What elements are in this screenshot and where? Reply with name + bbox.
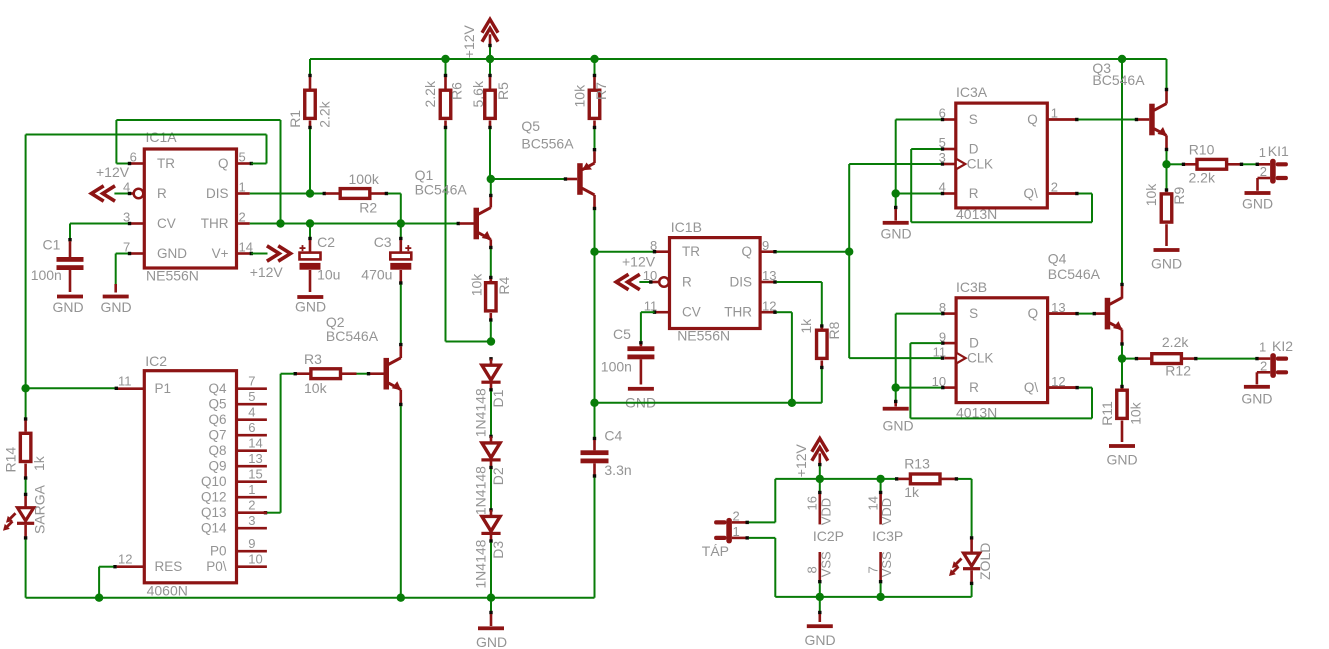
svg-text:VDD: VDD (879, 498, 894, 525)
svg-text:1N4148: 1N4148 (473, 388, 489, 437)
svg-text:470u: 470u (361, 267, 392, 283)
label R1 value 2.2k (317, 100, 333, 127)
wire bottom ground rail (26, 597, 595, 599)
wire bus to R6 (444, 59, 447, 89)
power pins IC2P (818, 479, 821, 597)
capacitor C1 (57, 241, 84, 292)
label IC3P VDD pin 14 (865, 496, 880, 510)
label IC2 name (145, 353, 167, 369)
svg-text:1k: 1k (31, 455, 47, 471)
wire rail to R14 (24, 388, 27, 431)
label IC2P name (813, 528, 844, 544)
junction R4/R6/D1 (487, 337, 495, 345)
label KI2 name (1272, 338, 1293, 354)
svg-text:R7: R7 (593, 82, 609, 100)
label R12 value 2.2k (1162, 334, 1189, 350)
transistor Q5 BC556A (577, 163, 594, 195)
label Q5 value BC556A (521, 135, 574, 151)
svg-text:GND: GND (52, 299, 83, 315)
junction P1 / left rail (21, 384, 29, 392)
svg-text:4060N: 4060N (147, 583, 188, 599)
resistor R11 (1117, 359, 1128, 419)
svg-text:GND: GND (1242, 196, 1273, 212)
svg-text:R8: R8 (826, 321, 842, 339)
label IC3B value 4013N (956, 405, 997, 421)
svg-text:GND: GND (882, 418, 913, 434)
wire Q2 base to R3 (357, 372, 384, 375)
svg-text:2.2k: 2.2k (1162, 334, 1189, 350)
junction Q5 collector / IC1B TR (590, 248, 598, 256)
svg-text:3: 3 (939, 150, 946, 165)
svg-text:GND: GND (1106, 452, 1137, 468)
label Q1 name (415, 167, 434, 183)
label R2 value 100k (349, 171, 380, 187)
label TAP pin 1 (733, 524, 740, 539)
label Q1 value BC546A (415, 182, 468, 198)
junction TR node / C4 / rail (590, 399, 598, 407)
svg-text:R1: R1 (287, 110, 303, 128)
wire DIS(1) net (250, 193, 323, 195)
wire IC3A Q to Q3 base (1047, 118, 1149, 121)
power +12V arrow at IC1B reset (616, 274, 652, 289)
svg-text:R10: R10 (1189, 142, 1215, 158)
power +12V arrow at IC power (812, 438, 828, 479)
wire R2 to THR (388, 194, 401, 224)
svg-text:BC546A: BC546A (326, 328, 379, 344)
resistor R4 (486, 283, 497, 311)
power +12V supply arrow top (482, 19, 498, 59)
svg-text:1: 1 (248, 482, 255, 497)
capacitor C2 (polarized) (300, 240, 321, 292)
wire Q5 collector down (593, 195, 596, 252)
svg-text:Q\: Q\ (1024, 380, 1039, 395)
label +12V at IC1B reset (622, 254, 656, 270)
wire Q(9) to clock bus (773, 250, 849, 253)
svg-text:RES: RES (155, 559, 183, 574)
svg-text:100n: 100n (601, 358, 632, 374)
ground below C1 (52, 295, 83, 315)
svg-text:5.6k: 5.6k (470, 80, 486, 107)
svg-text:CLK: CLK (967, 157, 993, 172)
svg-text:Q5: Q5 (521, 118, 540, 134)
label D2 value 1N4148 (473, 466, 489, 515)
svg-text:1: 1 (239, 180, 246, 195)
svg-text:R: R (969, 380, 979, 395)
svg-text:CLK: CLK (967, 351, 993, 366)
svg-text:P0: P0 (210, 544, 227, 559)
svg-text:2: 2 (1260, 164, 1267, 179)
label R3 value 10k (304, 380, 328, 396)
label R4 name (496, 276, 512, 294)
svg-text:C2: C2 (317, 234, 335, 250)
label +12V at IC1A reset (96, 164, 130, 180)
svg-text:GND: GND (157, 246, 187, 261)
label R8 value 1k (798, 318, 814, 334)
wire +12V top bus (310, 59, 1167, 89)
resistor R6 (440, 90, 451, 118)
wire IC1B TR node down (594, 252, 596, 403)
svg-text:S: S (969, 112, 978, 127)
svg-text:TR: TR (157, 156, 175, 171)
label R6 name (449, 82, 465, 100)
wire R13 to ZOLD (958, 479, 973, 540)
wire clock to IC3B CLK (849, 356, 944, 359)
junction +12V bus / R5+supply (486, 55, 494, 63)
label D2 name (490, 467, 506, 485)
svg-text:KI1: KI1 (1268, 143, 1289, 159)
wire R12 to KI2 (1197, 357, 1270, 360)
svg-text:Q10: Q10 (201, 474, 227, 489)
svg-text:10k: 10k (304, 380, 328, 396)
svg-text:VSS: VSS (879, 551, 894, 577)
svg-text:4013N: 4013N (956, 206, 997, 222)
svg-text:NE556N: NE556N (146, 268, 199, 284)
label TAP pin 2 (733, 508, 740, 523)
svg-text:D: D (969, 142, 979, 157)
wire IC power top rail (775, 477, 898, 480)
svg-text:GND: GND (100, 299, 131, 315)
junction Q4 emitter / R12 / R11 (1118, 354, 1126, 362)
wire R8 to rail (820, 361, 823, 403)
label R9 value 10k (1143, 183, 1159, 207)
svg-text:VSS: VSS (818, 551, 833, 577)
resistor R10 (1167, 159, 1244, 169)
transistor Q3 BC546A (1149, 104, 1167, 136)
flip-flop IC3B 4013N (932, 298, 1077, 403)
svg-text:+12V: +12V (250, 264, 284, 280)
svg-text:GND: GND (476, 634, 507, 649)
label IC2P VSS (818, 551, 833, 577)
power +12V arrow at IC1A reset (91, 186, 131, 201)
svg-text:S: S (969, 306, 978, 321)
wire Q1 collector node to Q5 base (491, 177, 577, 180)
svg-text:1k: 1k (798, 318, 814, 334)
label R13 name (904, 456, 930, 472)
label D3 value 1N4148 (473, 539, 489, 588)
label D3 name (490, 541, 506, 559)
resistor R13 (898, 474, 958, 484)
label IC1A value NE556N (146, 268, 199, 284)
svg-text:100n: 100n (31, 267, 62, 283)
wire R10 to KI1 (1243, 163, 1270, 166)
svg-text:TR: TR (682, 244, 700, 259)
wire IC2 RES to rail (99, 565, 117, 598)
svg-text:TÁP: TÁP (702, 543, 729, 559)
label R8 name (826, 321, 842, 339)
label +12V rotated (793, 443, 809, 477)
label R13 value 1k (904, 484, 920, 500)
junction DIS/R1 (306, 189, 314, 197)
svg-text:R3: R3 (304, 351, 322, 367)
ground below KI1 (1242, 191, 1273, 211)
svg-text:11: 11 (933, 344, 947, 359)
label R5 value 5.6k (470, 80, 486, 107)
svg-text:2: 2 (248, 498, 255, 513)
junction +12V bus / Q4 feed (1118, 55, 1126, 63)
label IC3P VSS pin 7 (865, 566, 880, 573)
diode D2 1N4148 (481, 436, 500, 461)
wire TR(8) net (595, 250, 657, 253)
svg-text:V+: V+ (212, 246, 229, 261)
label Q4 name (1048, 251, 1067, 267)
svg-text:2.2k: 2.2k (1189, 170, 1216, 186)
power pins IC3P (879, 479, 882, 597)
svg-text:1: 1 (1259, 145, 1266, 160)
label IC2P VDD pin 16 (805, 496, 820, 510)
svg-text:9: 9 (248, 536, 255, 551)
svg-text:P0\: P0\ (206, 559, 227, 574)
svg-text:10: 10 (248, 552, 262, 567)
svg-text:GND: GND (295, 299, 326, 315)
svg-text:10k: 10k (572, 84, 588, 108)
junction top rail / supply (816, 475, 824, 483)
transistor Q4 BC546A (1105, 298, 1123, 330)
label C4 value 3.3n (604, 462, 631, 478)
junction THR/C3 (397, 219, 405, 227)
label IC3A name (956, 84, 988, 100)
label R12 name (1165, 363, 1191, 379)
ground below R9 (1151, 224, 1182, 271)
svg-text:+12V: +12V (461, 24, 477, 58)
svg-text:1: 1 (733, 524, 740, 539)
label KI1 pin 2 (1260, 164, 1267, 179)
svg-text:100k: 100k (349, 171, 380, 187)
svg-text:IC2: IC2 (145, 353, 167, 369)
junction +12V bus / R6 (441, 55, 449, 63)
svg-text:Q: Q (1028, 306, 1039, 321)
svg-text:6: 6 (248, 420, 255, 435)
label C5 name (613, 326, 631, 342)
junction THR/TR-loop (276, 219, 284, 227)
label KI2 pin 1 (1259, 340, 1266, 355)
label R2 name (359, 200, 377, 216)
svg-text:D: D (969, 336, 979, 351)
wire IC3B D toggle loop (910, 341, 1092, 418)
op-amp/timer IC1A NE556N (123, 149, 253, 268)
label R3 name (304, 351, 322, 367)
diode D3 1N4148 (481, 510, 500, 535)
wire R3 to IC2 Q13 (264, 374, 294, 515)
LED ZOLD (949, 539, 980, 585)
svg-text:3.3n: 3.3n (604, 462, 631, 478)
svg-text:+12V: +12V (622, 254, 656, 270)
svg-text:IC1A: IC1A (146, 129, 178, 145)
svg-text:Q9: Q9 (208, 459, 226, 474)
svg-text:1N4148: 1N4148 (473, 466, 489, 515)
svg-text:Q8: Q8 (208, 443, 226, 458)
wire TAP pin1 to bottom rail (749, 538, 776, 597)
LED SARGA (3, 496, 34, 540)
svg-text:DIS: DIS (729, 275, 752, 290)
svg-text:R: R (157, 186, 167, 201)
junction THR12 / rail (788, 399, 796, 407)
label KI2 pin 2 (1260, 359, 1267, 374)
wire GND(7) to ground (116, 252, 132, 293)
svg-text:Q7: Q7 (208, 428, 226, 443)
svg-text:BC546A: BC546A (415, 182, 468, 198)
svg-text:4: 4 (248, 405, 255, 420)
svg-text:Q14: Q14 (201, 521, 227, 536)
svg-text:5: 5 (239, 150, 246, 165)
wire IC3A D toggle loop (911, 147, 1092, 222)
label D1 value 1N4148 (473, 388, 489, 437)
svg-text:IC2P: IC2P (813, 528, 844, 544)
ground IC3B (882, 388, 913, 434)
wire ZOLD to bottom rail (775, 585, 971, 597)
svg-text:Q6: Q6 (208, 412, 226, 427)
wire bus to R7 (593, 59, 596, 89)
label IC3A value 4013N (956, 206, 997, 222)
svg-text:2: 2 (239, 210, 246, 225)
svg-text:GND: GND (1151, 256, 1182, 272)
label C2 value 10u (317, 267, 340, 283)
junction top rail / IC3P VDD (876, 475, 884, 483)
wire Q2 emitter to rail (399, 390, 402, 598)
svg-text:CV: CV (157, 216, 176, 231)
junction RES / bottom rail (95, 594, 103, 602)
svg-text:5: 5 (248, 389, 255, 404)
wire IC1B ground rail (595, 402, 822, 404)
label R14 value 1k (31, 455, 47, 471)
svg-text:Q12: Q12 (201, 490, 227, 505)
resistor R2 (323, 189, 389, 199)
wire CV(11) to C5 (639, 311, 656, 345)
svg-text:1: 1 (1259, 340, 1266, 355)
svg-text:R14: R14 (2, 447, 18, 473)
wire R7 to Q5 emitter (593, 121, 596, 164)
wire TAP pin2 to top rail (749, 479, 776, 523)
label C5 value 100n (601, 358, 632, 374)
transistor Q1 BC546A (474, 208, 492, 240)
svg-text:2: 2 (733, 508, 740, 523)
svg-text:Q: Q (1027, 112, 1038, 127)
wire IC3A S to ground (896, 118, 945, 194)
label R11 value 10k (1127, 401, 1143, 425)
capacitor C4 (581, 440, 609, 478)
svg-text:SARGA: SARGA (31, 484, 47, 534)
wire THR(2) net (250, 222, 474, 225)
svg-text:R9: R9 (1171, 186, 1187, 204)
wire IC3B R to ground (896, 386, 945, 389)
label R10 value 2.2k (1189, 170, 1216, 186)
capacitor C5 (627, 344, 654, 384)
svg-text:P1: P1 (155, 381, 172, 396)
svg-text:3: 3 (248, 513, 255, 528)
svg-text:ZOLD: ZOLD (977, 543, 993, 580)
svg-text:Q: Q (741, 244, 752, 259)
label IC2P VDD (818, 498, 833, 525)
flip-flop IC3A 4013N (939, 103, 1077, 208)
label IC3P VSS (879, 551, 894, 577)
wire R4 to D-chain (489, 313, 492, 342)
wire TR node to C4 (593, 403, 596, 440)
wire R5 to Q1 collector node (488, 121, 491, 180)
label C3 name (374, 234, 392, 250)
wire +12V bus to Q4 collector (1120, 59, 1123, 299)
label LED name SARGA (31, 484, 47, 534)
resistor R9 (1161, 164, 1172, 222)
junction IC3B S/R/ground (892, 383, 900, 391)
label IC1B value NE556N (677, 328, 730, 344)
wire CV(3) to C1 (68, 222, 131, 242)
timer IC1B NE556N (643, 238, 777, 329)
wire IC3B Q to Q4 base (1048, 312, 1106, 315)
junction Q1 collector / R5 / Q5 base (487, 175, 495, 183)
wire TR(6) to THR loop (116, 120, 280, 224)
label +12V top (461, 24, 477, 58)
svg-text:THR: THR (724, 305, 752, 320)
label C3 value 470u (361, 267, 392, 283)
svg-text:15: 15 (248, 467, 262, 482)
resistor R12 (1122, 354, 1198, 364)
svg-text:C4: C4 (604, 428, 622, 444)
svg-text:THR: THR (201, 216, 229, 231)
label Q3 value BC546A (1092, 72, 1145, 88)
svg-text:14: 14 (248, 436, 262, 451)
wire clock to IC3A CLK (849, 162, 944, 165)
label Q2 value BC546A (326, 328, 379, 344)
wire Q4 emitter to node (1120, 330, 1123, 359)
label Q3 name (1092, 60, 1111, 76)
ground IC3A (880, 194, 911, 242)
wire THR(12) to rail (773, 311, 792, 403)
label IC2P VSS pin 8 (805, 566, 820, 573)
svg-text:R: R (969, 186, 979, 201)
label R4 value 10k (469, 273, 485, 297)
svg-text:GND: GND (880, 226, 911, 242)
svg-text:D3: D3 (490, 541, 506, 559)
wire IC3A R to ground (896, 192, 945, 195)
svg-text:Q4: Q4 (208, 381, 227, 396)
label IC3P name (872, 528, 903, 544)
junction rail / D-chain (487, 594, 495, 602)
svg-text:IC3B: IC3B (956, 279, 987, 295)
junction Q9 / clock bus (845, 248, 853, 256)
svg-text:NE556N: NE556N (677, 328, 730, 344)
wire Q3 collector to bus (1165, 88, 1168, 104)
wire clock bus vertical (848, 164, 850, 358)
label IC1A name (146, 129, 178, 145)
label IC1B name (671, 219, 702, 235)
svg-text:Q5: Q5 (208, 397, 226, 412)
power +12V arrow at V+(14) (250, 246, 291, 261)
svg-text:CV: CV (682, 305, 701, 320)
label Q2 name (326, 314, 345, 330)
svg-text:R12: R12 (1165, 363, 1191, 379)
svg-text:VDD: VDD (818, 498, 833, 525)
svg-text:10u: 10u (317, 267, 340, 283)
wire D3 to bottom rail (489, 534, 492, 598)
label KI1 name (1268, 143, 1289, 159)
counter IC2 4060N (117, 371, 267, 583)
wire IC2 P1 from rail (26, 387, 118, 390)
svg-text:IC3A: IC3A (956, 84, 988, 100)
label C1 name (43, 237, 61, 253)
label R14 name (2, 447, 18, 473)
svg-text:R6: R6 (449, 82, 465, 100)
ground below C5 (625, 387, 656, 411)
label C4 name (604, 428, 622, 444)
label C2 name (317, 234, 335, 250)
wire IC3B S to ground (896, 312, 945, 388)
svg-text:10k: 10k (469, 273, 485, 297)
junction THR/C2 (306, 219, 314, 227)
junction bottom rail / IC2P VSS (816, 593, 824, 601)
diode D1 1N4148 (481, 357, 500, 384)
svg-text:BC546A: BC546A (1048, 266, 1101, 282)
resistor R5 (485, 90, 496, 118)
svg-text:R13: R13 (904, 456, 930, 472)
